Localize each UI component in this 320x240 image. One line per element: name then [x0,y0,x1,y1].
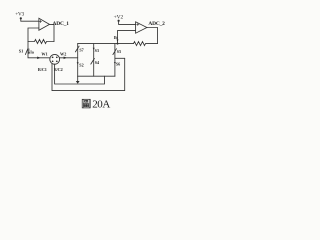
svg-text:+V3: +V3 [15,12,24,18]
svg-text:S5: S5 [117,49,121,54]
current arrow on S2 [77,62,79,64]
node +V2 junction dot [118,20,120,22]
wire U1 inverting input to summing node A [28,28,39,42]
arrowhead W1 current into motor [37,57,40,60]
resistor R1 (feedback of U1) [28,40,54,44]
wire +V3 to op-amp U1 non-inverting input [21,18,39,21]
op-amp U1 [39,18,50,30]
svg-text:W2: W2 [60,51,66,56]
svg-text:ADC_2: ADC_2 [148,21,165,27]
wire U1 output down to feedback [53,24,55,41]
wire motor bottom-left terminal long return to S5/S6 node [52,58,125,90]
op-amp U2 [136,22,147,33]
svg-text:S3: S3 [95,48,99,53]
wire node A down through S1 to motor W1 [28,42,50,58]
ground return arrow at column1 [77,76,79,81]
wire S5/S6 node to right branch [115,57,125,59]
op-amp U2 plus marker [137,23,139,25]
wire U2 inverting input to summing node [118,31,136,44]
wire column3 vertical [114,44,116,77]
switch S1 lever [25,49,28,55]
wire +V2 to op-amp U2 non-inverting input [119,21,136,25]
switch S4 lever [91,58,95,64]
switch S5 lever [113,49,117,55]
wire U1 output to ADC_1 [50,23,55,25]
current arrow on S3 [93,48,95,50]
wire top summing rail of U2 [78,43,134,45]
svg-text:S4: S4 [95,60,99,65]
wire motor right terminal to node B [59,57,77,59]
junction dot Ib rail [117,43,119,45]
svg-text:W1: W1 [41,52,47,57]
wire column2 vertical [93,44,95,77]
svg-text:20A: 20A [92,99,110,111]
svg-text:S1: S1 [19,48,24,53]
current arrow on S6 [114,62,116,64]
resistor R2 (feedback of U2) [134,42,158,46]
svg-text:ADC_1: ADC_1 [53,21,70,27]
svg-text:Ia: Ia [30,49,34,54]
node +V3 junction dot [20,17,22,19]
wire ground rail [78,75,115,77]
op-amp U1 plus marker [39,20,41,22]
svg-text:S7: S7 [79,48,83,53]
svg-text:S6: S6 [116,62,120,67]
wire motor bottom-right terminal to ground rail riser [55,64,105,84]
current arrow Ib [117,40,119,42]
current arrow Ia [28,49,30,53]
motor M rotor circle [50,54,60,64]
arrowhead W2 current out of motor [64,57,67,60]
svg-text:S2: S2 [79,63,83,68]
switch S7 lever [75,46,79,52]
motor M contact dots [52,56,54,58]
wire column1 vertical [77,44,79,77]
svg-text:R/C2: R/C2 [54,67,63,72]
caption glyph 圖 [82,99,90,108]
wire U2 output to ADC_2 [147,28,158,44]
svg-text:R/C1: R/C1 [38,67,47,72]
